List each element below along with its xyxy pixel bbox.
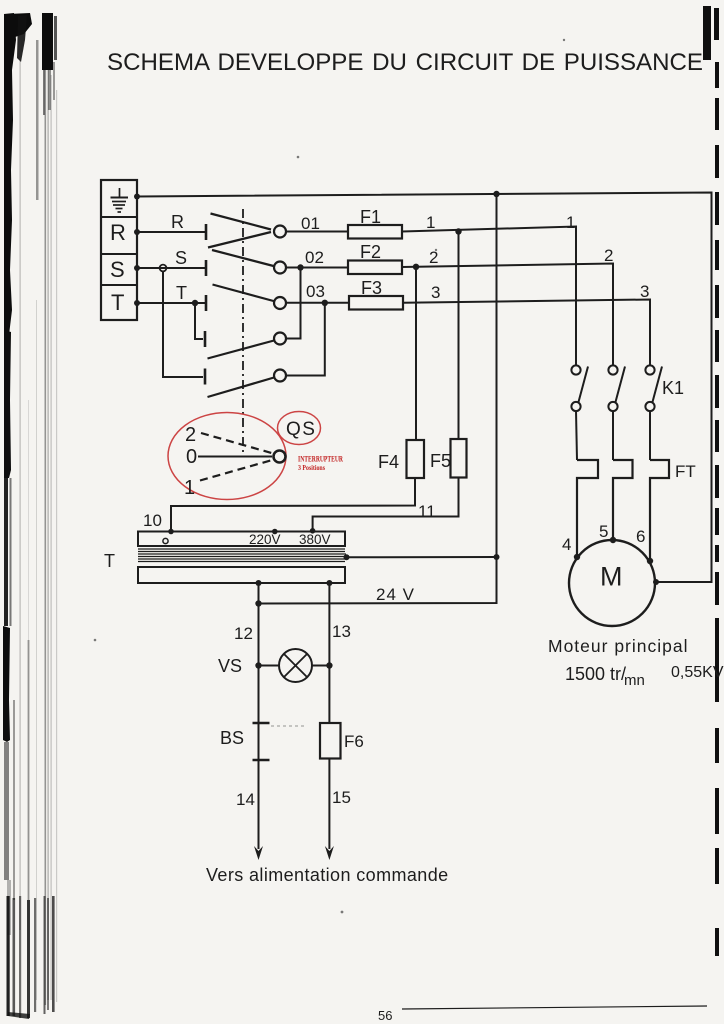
junction on vertical bus xyxy=(494,554,500,560)
switch QS pole 4 arm xyxy=(208,341,275,359)
svg-text:F1: F1 xyxy=(360,207,381,227)
svg-text:T: T xyxy=(176,283,187,303)
junction on terminal S xyxy=(134,265,140,271)
svg-text:4: 4 xyxy=(562,535,571,554)
transformer small tap circle xyxy=(163,538,168,543)
transformer tap node 380V xyxy=(310,528,316,534)
svg-text:BS: BS xyxy=(220,728,244,748)
wire: lamp left lead xyxy=(259,665,280,667)
caption Vers alimentation commande xyxy=(206,865,449,885)
switch QS pole 2 fixed contact xyxy=(205,260,208,276)
switch BS tick upper xyxy=(253,722,270,724)
QS position 1 dashed line xyxy=(200,460,274,481)
caption 0,55KV xyxy=(671,664,724,681)
svg-text:F4: F4 xyxy=(378,452,399,472)
motor letter M xyxy=(600,562,623,592)
label 2 (right) xyxy=(604,246,613,265)
switch QS pole 1 arm (upper) xyxy=(211,214,272,230)
fuse F4 xyxy=(407,440,425,478)
wire: phase S to switch xyxy=(137,267,205,269)
terminal label T xyxy=(111,290,124,315)
junction on terminal R xyxy=(134,229,140,235)
svg-text:0: 0 xyxy=(186,446,197,468)
wire: phase R to switch xyxy=(137,231,205,233)
svg-text:Vers alimentation commande: Vers alimentation commande xyxy=(206,865,449,885)
svg-text:K1: K1 xyxy=(662,378,684,398)
label 3 (left) xyxy=(431,283,440,302)
switch QS pole 5 fixed contact xyxy=(204,369,207,385)
QS selector annotation: red ellipse xyxy=(168,413,286,500)
junction secondary right xyxy=(326,580,332,586)
wire: T branch down to pole 4 xyxy=(195,303,203,339)
svg-text:13: 13 xyxy=(332,622,351,641)
svg-text:M: M xyxy=(600,562,623,592)
terminal block X1 xyxy=(101,180,137,320)
label 5 xyxy=(599,522,608,541)
label S on wire xyxy=(175,248,187,268)
svg-text:12: 12 xyxy=(234,624,253,643)
svg-text:R: R xyxy=(110,220,126,245)
label F3 xyxy=(361,278,382,298)
svg-text:QS: QS xyxy=(286,419,316,440)
svg-text:2: 2 xyxy=(185,424,196,446)
svg-text:14: 14 xyxy=(236,790,255,809)
svg-text:S: S xyxy=(175,248,187,268)
svg-text:11: 11 xyxy=(418,502,436,521)
transformer T secondary bar xyxy=(138,567,345,583)
svg-text:3: 3 xyxy=(640,282,649,301)
ground (earth symbol in terminal block) xyxy=(111,188,129,212)
svg-text:220V: 220V xyxy=(249,532,281,547)
wire 10: F4 bottom to transformer tap xyxy=(171,478,415,532)
switch BS link dashes xyxy=(271,725,304,727)
svg-text:02: 02 xyxy=(305,248,324,267)
svg-text:380V: 380V xyxy=(299,532,331,547)
svg-text:24 V: 24 V xyxy=(376,585,415,604)
transformer primary tap node 10 xyxy=(168,529,174,535)
svg-text:03: 03 xyxy=(306,282,325,301)
switch QS pole 1 arm (lower) xyxy=(208,232,271,248)
switch QS pole 3 arm xyxy=(213,285,274,302)
svg-text:0,55KV: 0,55KV xyxy=(671,664,724,681)
junction: winding mid to bus xyxy=(344,554,350,560)
svg-text:F3: F3 xyxy=(361,278,382,298)
QS position 0 line xyxy=(198,456,272,458)
wire: phase 1 from F1 to K1 column xyxy=(402,227,576,366)
wire: pole2 to fuse F2 xyxy=(286,267,348,269)
label 1 (right) xyxy=(566,213,575,232)
label 15 xyxy=(332,788,351,807)
switch QS pole 5 contact circle xyxy=(274,370,286,382)
svg-text:S: S xyxy=(110,257,125,282)
junction secondary left xyxy=(256,580,262,586)
label 3 (right) xyxy=(640,282,649,301)
label QS xyxy=(286,419,316,440)
svg-text:FT: FT xyxy=(675,462,696,481)
label 24V xyxy=(376,585,415,604)
wire 13: secondary right down to F6 xyxy=(328,583,330,723)
wire: winding mid point to vertical bus xyxy=(347,556,497,558)
thermal relay FT element 3 xyxy=(650,460,669,560)
label T on wire xyxy=(176,283,187,303)
label 11 xyxy=(418,502,436,521)
label 02 xyxy=(305,248,324,267)
switch QS pole 4 contact circle xyxy=(274,333,286,345)
svg-text:1: 1 xyxy=(426,213,435,232)
transformer T primary bar xyxy=(138,532,345,547)
svg-text:1: 1 xyxy=(184,477,195,499)
svg-text:1500 tr/: 1500 tr/ xyxy=(565,664,626,684)
label position 1 xyxy=(184,477,195,499)
label 12 xyxy=(234,624,253,643)
svg-text:6: 6 xyxy=(636,527,645,546)
fuse F2 xyxy=(348,261,402,275)
svg-text:F5: F5 xyxy=(430,451,451,471)
contactor K1 pole 2 xyxy=(608,365,625,460)
switch QS pole 3 contact circle 03 xyxy=(274,297,286,309)
thermal relay FT element 1 xyxy=(577,460,598,556)
svg-text:15: 15 xyxy=(332,788,351,807)
caption 1500 tr/mn xyxy=(565,664,645,689)
label position 0 xyxy=(186,446,197,468)
svg-text:2: 2 xyxy=(429,248,438,267)
switch QS pole 4 fixed contact xyxy=(204,331,207,347)
transformer tap node 220V xyxy=(272,529,278,535)
fuse F6 xyxy=(320,723,341,759)
terminal label R xyxy=(110,220,126,245)
junction: phase2 to F4 xyxy=(413,264,419,270)
QS position 2 dashed line xyxy=(201,433,275,454)
wire: drop to fuse F4 xyxy=(415,267,417,440)
svg-text:R: R xyxy=(171,212,184,232)
QS selector annotation: red circle around QS xyxy=(278,412,321,445)
switch QS pole 1 fixed contact xyxy=(205,224,208,240)
svg-text:F2: F2 xyxy=(360,242,381,262)
junction lamp left xyxy=(255,662,261,668)
label 03 xyxy=(306,282,325,301)
motor terminal 6 xyxy=(647,558,653,564)
label 13 xyxy=(332,622,351,641)
junction 03 branch xyxy=(322,300,328,306)
svg-text:5: 5 xyxy=(599,522,608,541)
wire: vertical earth/neutral bus xyxy=(259,194,497,604)
thermal relay FT element 2 xyxy=(613,460,633,540)
wire 15: F6 down xyxy=(328,759,330,850)
wire: pole3 to fuse F3 xyxy=(286,302,349,304)
value label 380V xyxy=(299,532,331,547)
lamp VS xyxy=(279,649,312,682)
label position 2 xyxy=(185,424,196,446)
svg-text:10: 10 xyxy=(143,511,162,530)
label BS xyxy=(220,728,244,748)
label 6 xyxy=(636,527,645,546)
switch BS tick lower xyxy=(253,759,270,761)
switch QS pole 1 contact circle 01 xyxy=(274,226,286,238)
junction: earth bus to vertical bus xyxy=(493,191,499,197)
wire: drop to fuse F5 xyxy=(458,232,460,440)
switch QS shaft (dash-dot line) xyxy=(242,209,244,456)
label 4 xyxy=(562,535,571,554)
wire: S branch down to pole 5 xyxy=(163,271,203,377)
svg-text:T: T xyxy=(111,290,124,315)
label 01 xyxy=(301,214,320,233)
fuse F3 xyxy=(349,296,403,310)
svg-text:01: 01 xyxy=(301,214,320,233)
motor terminal 4 xyxy=(574,554,580,560)
label F5 xyxy=(430,451,451,471)
motor terminal 5 xyxy=(610,537,616,543)
svg-text:T: T xyxy=(104,551,115,571)
value label 220V xyxy=(249,532,281,547)
label F6 xyxy=(344,732,364,751)
wire: phase 2 from F2 to K1 column xyxy=(402,264,613,366)
label 10 xyxy=(143,511,162,530)
svg-text:VS: VS xyxy=(218,656,242,676)
contactor K1 pole 1 xyxy=(571,365,588,460)
svg-text:mn: mn xyxy=(624,672,645,689)
junction on terminal T xyxy=(134,300,140,306)
switch QS pole 2 contact circle 02 xyxy=(274,262,286,274)
label F1 xyxy=(360,207,381,227)
wire: pole4 up to 02 node xyxy=(286,268,301,339)
label T xyxy=(104,551,115,571)
label VS xyxy=(218,656,242,676)
wire: phase T to switch xyxy=(137,302,205,304)
junction: phase1 to F5 xyxy=(455,228,461,234)
wire: phase 3 from F3 to K1 column xyxy=(403,300,650,366)
page footer line xyxy=(402,1006,707,1009)
svg-text:Moteur principal: Moteur principal xyxy=(548,636,689,656)
svg-text:56: 56 xyxy=(378,1008,392,1023)
wire: pole5 up to 03 node xyxy=(286,303,325,376)
wire 11: F5 bottom to transformer 380V tap xyxy=(313,478,459,531)
svg-text:F6: F6 xyxy=(344,732,364,751)
switch QS pole 3 fixed contact xyxy=(205,295,208,311)
label F2 xyxy=(360,242,381,262)
wire 12: secondary left down xyxy=(258,583,260,849)
label R on wire xyxy=(171,212,184,232)
terminal label S xyxy=(110,257,125,282)
red note INTERRUPTEUR 3 Positions xyxy=(298,455,343,473)
label 14 xyxy=(236,790,255,809)
contactor K1 pole 3 xyxy=(645,365,662,460)
arrow 14 xyxy=(254,846,263,860)
transformer T winding lines xyxy=(138,549,346,562)
label 1 (left) xyxy=(426,213,435,232)
svg-text:1: 1 xyxy=(566,213,575,232)
svg-text:2: 2 xyxy=(604,246,613,265)
switch QS pole 5 arm xyxy=(208,378,275,398)
fuse F5 xyxy=(451,439,467,478)
title text xyxy=(107,49,703,76)
junction 02 branch xyxy=(297,264,303,270)
label 2 (left) xyxy=(429,248,438,267)
caption Moteur principal xyxy=(548,636,689,656)
svg-text:SCHEMA DEVELOPPE DU CIRCUIT DE: SCHEMA DEVELOPPE DU CIRCUIT DE PUISSANCE xyxy=(107,49,703,76)
junction on T wire xyxy=(192,300,198,306)
switch QS pole 2 arm xyxy=(212,250,274,266)
label K1 xyxy=(662,378,684,398)
arrow 15 xyxy=(325,846,334,860)
wire: pole1 to fuse F1 xyxy=(286,231,348,233)
svg-text:3 Positions: 3 Positions xyxy=(298,463,325,472)
svg-text:3: 3 xyxy=(431,283,440,302)
QS pivot circle xyxy=(274,451,286,463)
label F4 xyxy=(378,452,399,472)
junction 24V node xyxy=(255,600,261,606)
junction lamp right xyxy=(326,662,332,668)
wire: lamp right lead xyxy=(312,665,329,667)
page number 56 xyxy=(378,1008,392,1023)
label FT xyxy=(675,462,696,481)
fuse F1 xyxy=(348,225,402,239)
motor M main circle xyxy=(569,540,655,626)
wire: earth bus from terminal to right border xyxy=(134,193,712,586)
node: small circle junction on S wire xyxy=(160,265,167,272)
